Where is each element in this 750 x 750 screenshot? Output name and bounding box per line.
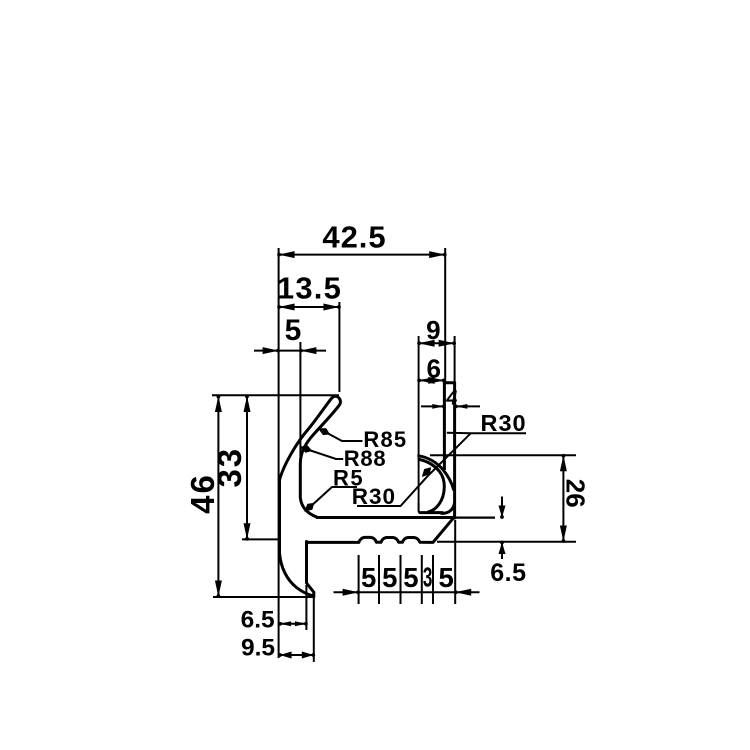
leader R88 xyxy=(300,446,344,460)
extension line x445 (42.5 right / fin) xyxy=(444,248,446,383)
svg-text:3: 3 xyxy=(423,561,432,592)
dimension 6 line xyxy=(417,377,445,384)
svg-text:5: 5 xyxy=(361,562,376,593)
profile right edge xyxy=(453,383,456,518)
extension line y597 (46 bottom / foot tip) xyxy=(213,596,314,598)
dimension 26 line xyxy=(560,454,567,543)
profile right hook floor xyxy=(420,511,442,514)
label R88 text xyxy=(344,446,387,471)
extension line x418.6 (9 and 6 left) xyxy=(418,336,420,505)
dimension 42.5 text xyxy=(322,220,386,255)
dimension 6 text xyxy=(426,353,440,383)
svg-text:6: 6 xyxy=(426,353,440,383)
dimension 6.5 left text xyxy=(241,606,275,633)
dimension 46 line xyxy=(215,395,222,598)
extension line x300.4 (5 right / blade inner) xyxy=(299,342,301,465)
profile left foot right edge xyxy=(307,542,314,598)
dimension 5 line xyxy=(254,347,326,354)
profile web bottom with serrations and right ramp xyxy=(307,518,454,543)
profile left hook blade xyxy=(280,396,341,552)
dimension 33 text xyxy=(211,447,248,488)
svg-text:R30: R30 xyxy=(352,484,396,509)
leader R5 xyxy=(304,487,357,512)
dimension 42.5 line xyxy=(277,251,446,258)
extension line left x278.6 xyxy=(278,248,280,658)
leader R85 xyxy=(318,428,363,441)
extension line y517.5 right (6.5 top) xyxy=(455,516,495,518)
dimension fin thickness line xyxy=(421,404,480,409)
dimension 9.5 line xyxy=(278,652,315,659)
profile right fin top cap xyxy=(444,381,454,384)
dimension 9 text xyxy=(426,315,440,345)
profile right hook outer arc R30 xyxy=(419,456,454,490)
profile right hook slot arc xyxy=(419,459,444,512)
dimension 9 line xyxy=(417,340,456,347)
extension line x306.4 below foot xyxy=(305,585,307,630)
leader R30 shared diagonal xyxy=(357,433,526,506)
profile right fin left edge xyxy=(443,383,446,470)
dimension 9.5 text xyxy=(241,634,275,661)
dimension 5-5-5-3-5 line xyxy=(334,589,480,596)
profile right hook outer curl xyxy=(442,503,455,514)
profile web top surface xyxy=(317,516,454,519)
extension line y539.4 (33 bottom) xyxy=(242,538,279,540)
dimension 46 text xyxy=(184,473,221,514)
dimension 26 text xyxy=(561,479,591,508)
dimension 6.5 right text xyxy=(490,559,526,587)
dimension 13.5 text xyxy=(277,271,342,306)
label R30 right text xyxy=(481,410,527,436)
svg-text:R30: R30 xyxy=(481,410,527,436)
dimension 5-5-5-3-5 text xyxy=(361,561,454,593)
svg-text:13.5: 13.5 xyxy=(277,271,342,306)
dimension 6.5 left line xyxy=(278,621,308,626)
svg-text:5: 5 xyxy=(403,562,418,593)
svg-text:9.5: 9.5 xyxy=(241,634,275,661)
svg-text:4: 4 xyxy=(445,388,457,410)
dimension 33 line xyxy=(244,395,251,541)
dimension 6.5 right line xyxy=(499,497,506,560)
label R85 text xyxy=(363,427,407,452)
profile left foot concave curve xyxy=(280,553,313,596)
dimension fin thickness text xyxy=(445,388,457,410)
extension line y455.3 (26 top) xyxy=(430,454,576,456)
label R5 text xyxy=(333,466,364,491)
serration dimension tick extension lines xyxy=(359,555,433,604)
dimension 13.5 line xyxy=(277,304,341,311)
extension line x339.4 (13.5 right / hook tip) xyxy=(338,302,340,392)
label R30 left text xyxy=(352,484,396,509)
svg-text:6.5: 6.5 xyxy=(241,606,275,633)
svg-text:26: 26 xyxy=(561,479,591,508)
svg-text:5: 5 xyxy=(285,314,302,347)
svg-text:6.5: 6.5 xyxy=(490,559,526,587)
extension line x454.6 below profile xyxy=(454,336,457,604)
svg-text:42.5: 42.5 xyxy=(322,220,386,255)
profile right hook lip corner xyxy=(419,503,421,513)
extension line top y395.2 xyxy=(212,394,339,396)
extension line y541.8 right (26 bottom) xyxy=(437,541,576,543)
svg-text:33: 33 xyxy=(211,447,248,488)
svg-text:5: 5 xyxy=(382,562,397,593)
dimension 5 text xyxy=(285,314,302,347)
extension line x313.8 below foot tip xyxy=(313,597,315,662)
svg-text:9: 9 xyxy=(426,315,440,345)
svg-text:5: 5 xyxy=(439,562,454,593)
